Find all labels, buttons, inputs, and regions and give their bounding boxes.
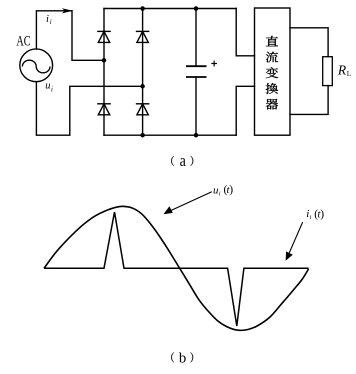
diode D1 (upper left): [97, 31, 111, 42]
svg-text:AC: AC: [16, 33, 30, 49]
svg-text:i: i: [46, 14, 49, 25]
resistor RL body: [323, 57, 333, 86]
wire converter top input: [236, 9, 254, 56]
box U1 label char 变: [266, 67, 278, 78]
wire converter top output to RL: [290, 28, 328, 57]
svg-text:a: a: [180, 151, 187, 170]
wire top rail: [104, 8, 236, 10]
svg-text:R: R: [337, 63, 347, 78]
svg-text:): ): [320, 208, 324, 220]
svg-text:u: u: [45, 80, 50, 91]
svg-text:): ): [229, 184, 233, 196]
wire AC top to arrow corner: [36, 11, 72, 49]
diode D4 (lower right): [136, 104, 150, 115]
annotation arrow to i_i(t): [287, 222, 302, 257]
wire capacitor bottom lead: [195, 77, 197, 135]
junction node: bottom rail right branch: [140, 133, 145, 138]
junction node: bottom rail capacitor: [194, 133, 199, 138]
box U1 label char 流: [266, 52, 278, 63]
box U1 DC converter outline: [255, 8, 291, 135]
box U1 label char 換: [266, 83, 279, 94]
annotation arrow to u_i(t): [166, 192, 212, 213]
svg-text:i: i: [51, 86, 53, 93]
capacitor C1 polarity +: [211, 61, 217, 67]
svg-text:L: L: [347, 70, 351, 78]
wire capacitor top lead: [195, 9, 197, 67]
svg-text:i: i: [219, 191, 221, 198]
svg-text:i: i: [310, 214, 312, 221]
diode D3 (lower left): [97, 104, 111, 115]
waveform u_i(t) sine curve: [44, 206, 309, 330]
junction node: right bridge midpoint: [140, 84, 145, 89]
wire converter bottom input: [236, 86, 254, 135]
junction node: top rail right branch: [140, 6, 145, 11]
wire AC bottom down-right-up to right bridge input: [36, 82, 142, 136]
box U1 label char 器: [266, 99, 278, 110]
wire bridge left branch vertical: [103, 9, 105, 136]
svg-text:i: i: [50, 19, 52, 26]
wire RL bottom to converter: [290, 86, 328, 115]
wire bottom rail: [104, 134, 236, 136]
wire corner down to left bridge input: [72, 11, 104, 61]
box U1 label char 直: [266, 36, 278, 46]
svg-text:b: b: [179, 350, 186, 366]
junction node: left bridge midpoint: [102, 58, 107, 63]
AC source G1 sine symbol: [22, 60, 50, 73]
current arrow i_i: [62, 8, 73, 13]
junction node: top rail capacitor: [194, 6, 199, 11]
wire bridge right branch vertical: [142, 9, 144, 136]
AC source G1 circle: [20, 49, 53, 82]
waveform i_i(t) curve with spikes: [44, 212, 309, 326]
capacitor C1 plates: [186, 66, 207, 77]
caption (a): [171, 156, 174, 166]
diode D2 (upper right): [136, 31, 150, 42]
caption (b): [171, 352, 174, 362]
